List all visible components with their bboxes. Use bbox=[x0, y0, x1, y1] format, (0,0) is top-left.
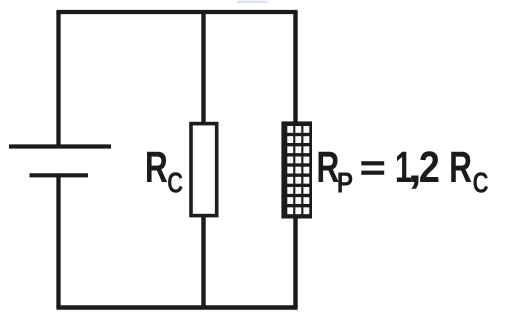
label RC (value label of resistor RC) bbox=[147, 152, 182, 193]
wire: left vertical, top rail to battery positive plate bbox=[56, 12, 60, 147]
battery: negative (short) plate bbox=[30, 173, 89, 177]
resistor RP (hatched rectangle body) bbox=[281, 121, 312, 218]
wire: right vertical, top rail to resistor RP bbox=[293, 12, 297, 122]
wire: middle vertical, top rail to resistor RC bbox=[201, 12, 205, 123]
wire: right vertical, resistor RP to bottom rail bbox=[293, 217, 297, 308]
faint scan smudge at top edge bbox=[237, 1, 268, 4]
resistor RC (open rectangle body) bbox=[191, 124, 217, 216]
wire: left vertical, battery negative plate to bottom rail bbox=[56, 175, 60, 307]
wire: top horizontal rail bbox=[56, 10, 297, 14]
battery: positive (long) plate bbox=[9, 144, 111, 148]
wire: bottom horizontal rail bbox=[56, 305, 297, 310]
label RP = 1,2 RC (value label of resistor RP) bbox=[319, 151, 488, 193]
wire: middle vertical, resistor RC to bottom rail bbox=[201, 216, 205, 308]
